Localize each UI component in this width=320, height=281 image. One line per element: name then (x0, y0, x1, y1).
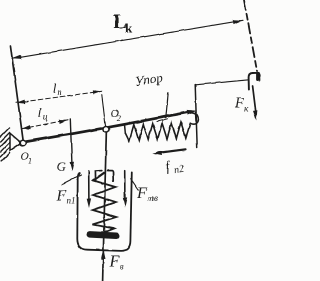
force F_tv inner arrow (124, 170, 126, 198)
arrowhead L_k left (12, 55, 22, 59)
svg-text:ц: ц (43, 113, 48, 123)
arrowhead F_p1 inner (87, 198, 91, 208)
svg-text:тв: тв (148, 193, 158, 203)
link line to fork (195, 80, 248, 85)
label F_тв (136, 185, 158, 203)
svg-text:F: F (234, 96, 244, 112)
svg-text:F: F (56, 188, 67, 205)
label G (57, 159, 67, 174)
extension line at O2 (102, 95, 106, 128)
label F_в (109, 252, 124, 273)
pointer line F_tv (131, 179, 139, 190)
label l_п (53, 80, 63, 98)
arrowhead f_p2 (152, 151, 162, 155)
svg-text:п: п (57, 88, 62, 98)
upper spring seat right hook (108, 171, 114, 181)
svg-text:Упор: Упор (134, 70, 164, 89)
label O1 (21, 151, 33, 166)
arrowhead l_c right (59, 120, 68, 124)
svg-text:k: k (125, 21, 133, 36)
svg-text:п2: п2 (173, 164, 185, 176)
svg-text:к: к (244, 105, 249, 115)
spring f_p2 right hook (189, 113, 198, 124)
force arrow f_p2 (157, 149, 186, 153)
right lever (dashed) (244, 0, 257, 71)
arrowhead F_v up on rod (101, 250, 106, 260)
arrowhead G (70, 162, 74, 172)
dimension line L_k (12, 20, 244, 59)
spring f_p2 zigzag (125, 122, 190, 141)
arrowhead l_c left (22, 125, 31, 129)
arrowhead beam right end (187, 110, 197, 115)
pointer line F_p1 (62, 175, 81, 185)
left extension line at O1 (11, 46, 24, 141)
arrowhead l_p left (16, 100, 25, 104)
force F_k line (253, 86, 256, 112)
svg-text:f: f (164, 159, 172, 175)
force G line (70, 119, 72, 163)
dimension line l_p (l_п) (16, 91, 102, 103)
svg-text:в: в (120, 263, 124, 273)
label Упор (134, 70, 164, 89)
stop plate vertical line (195, 85, 197, 148)
svg-text:l: l (38, 105, 42, 120)
spring cup housing (77, 172, 132, 251)
short line under beam (157, 119, 168, 122)
arrowhead L_k right (233, 20, 243, 24)
label O2 (111, 108, 121, 123)
label L_k (114, 11, 134, 36)
upper spring seat left hook (95, 171, 101, 181)
label l_ц (38, 105, 48, 123)
vertical spring (92, 173, 116, 233)
label F_k (234, 96, 249, 115)
svg-text:G: G (57, 159, 67, 174)
spring f_p2 left anchor (124, 126, 127, 133)
rod from O2 down to F_v (103, 130, 107, 281)
svg-text:F: F (136, 185, 147, 202)
wall hatching at O1 (0, 128, 9, 162)
arrowhead l_p right (93, 90, 102, 94)
pivot circle O2 (103, 127, 109, 133)
lower spring seat plate (86, 231, 119, 239)
pivot support triangle O1 (10, 133, 21, 150)
beam (lever) O1 to right end (24, 112, 191, 142)
svg-text:2: 2 (117, 114, 121, 123)
svg-text:l: l (53, 80, 57, 95)
fork right pin (256, 73, 259, 79)
svg-text:п1: п1 (67, 195, 76, 205)
dimension line l_c (l_ц) (22, 120, 69, 129)
pointer line Упор (166, 93, 168, 118)
arrowhead F_k (253, 110, 257, 120)
pivot circle O1 (20, 140, 25, 145)
label f_п2 (164, 157, 184, 177)
svg-text:1: 1 (28, 157, 32, 166)
label F_п1 (56, 188, 76, 206)
arrowhead F_tv inner (123, 197, 127, 207)
force F_p1 inner arrow (88, 170, 90, 199)
fork (clevis) on right lever (249, 73, 260, 90)
